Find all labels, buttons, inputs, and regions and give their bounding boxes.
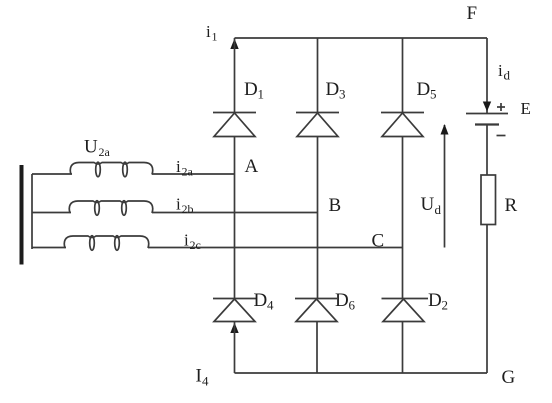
diode D1 — [214, 113, 255, 137]
diode D3 — [297, 113, 338, 137]
wire branch C upper — [402, 38, 404, 113]
wire phase a to node A — [152, 173, 235, 175]
svg-text:D: D — [417, 79, 431, 100]
svg-text:D: D — [244, 79, 258, 100]
svg-text:3: 3 — [339, 87, 346, 102]
winding secondary a — [70, 162, 152, 177]
diode D5 — [382, 113, 423, 137]
diode D2 cathode bar — [382, 298, 429, 300]
wire right rail lower — [486, 225, 488, 374]
svg-text:B: B — [329, 195, 342, 216]
winding secondary b — [69, 201, 152, 216]
battery E plus sign — [497, 103, 505, 111]
diode D6 — [296, 299, 337, 322]
wire phase c to node C — [148, 247, 403, 249]
label D6 — [335, 290, 356, 313]
svg-text:2a: 2a — [182, 165, 194, 179]
svg-text:i: i — [176, 195, 181, 214]
battery E positive plate — [466, 113, 508, 115]
wire phase a left stub — [32, 173, 72, 175]
svg-text:G: G — [502, 367, 516, 388]
wire top rail — [235, 37, 488, 39]
svg-text:I: I — [196, 366, 202, 387]
label I4 — [196, 366, 210, 389]
svg-text:D: D — [254, 290, 268, 311]
label id — [498, 61, 511, 83]
label D1 — [244, 79, 264, 102]
diode D4 cathode bar — [213, 298, 256, 300]
wire branch A lower — [234, 322, 236, 374]
arrow I4 — [230, 323, 238, 334]
label Ud — [421, 194, 442, 217]
wire right rail upper — [486, 38, 488, 113]
svg-text:1: 1 — [212, 30, 218, 44]
battery E negative plate — [475, 123, 499, 125]
diode D3 cathode bar — [296, 112, 339, 114]
diode D6 cathode bar — [295, 298, 337, 300]
label i1 — [206, 22, 218, 44]
svg-text:d: d — [504, 68, 511, 83]
wire branch A middle — [234, 137, 236, 299]
label D5 — [417, 79, 437, 102]
wire right rail middle — [486, 125, 488, 176]
label D3 — [326, 79, 346, 102]
wire branch C middle — [402, 137, 404, 299]
diode D4 — [214, 299, 255, 322]
svg-text:i: i — [176, 157, 181, 176]
wire branch B lower — [316, 322, 318, 374]
svg-text:i: i — [184, 231, 189, 250]
svg-text:E: E — [521, 99, 531, 118]
wire bottom rail — [235, 372, 488, 374]
label i2a — [176, 157, 194, 179]
wire left bus vertical — [31, 174, 33, 249]
transformer core bar — [20, 165, 24, 265]
svg-text:5: 5 — [430, 87, 437, 102]
resistor R — [481, 175, 496, 225]
diode D2 — [383, 299, 424, 322]
svg-text:6: 6 — [349, 298, 356, 313]
wire phase c left stub — [32, 247, 66, 249]
arrow i1 — [230, 39, 238, 50]
diode D5 cathode bar — [381, 112, 424, 114]
wire phase b to node B — [152, 212, 318, 214]
svg-text:2b: 2b — [182, 202, 194, 216]
label U2a — [84, 137, 111, 160]
svg-text:i: i — [498, 61, 503, 80]
label i2b — [176, 195, 194, 217]
svg-text:D: D — [335, 290, 349, 311]
wire phase b left stub — [32, 212, 71, 214]
svg-text:A: A — [245, 156, 259, 177]
svg-text:F: F — [467, 3, 478, 24]
svg-text:i: i — [206, 22, 211, 41]
arrow Ud — [441, 124, 449, 248]
svg-text:R: R — [505, 195, 518, 216]
svg-text:D: D — [326, 79, 340, 100]
svg-text:2: 2 — [442, 298, 449, 313]
label D4 — [254, 290, 275, 313]
label i2c — [184, 231, 201, 253]
svg-text:2a: 2a — [99, 145, 111, 159]
svg-text:U: U — [421, 194, 435, 215]
svg-text:U: U — [84, 137, 98, 158]
svg-text:2c: 2c — [190, 238, 201, 252]
svg-text:4: 4 — [267, 298, 274, 313]
label D2 — [428, 290, 448, 313]
wire branch C lower — [402, 322, 404, 374]
svg-text:D: D — [428, 290, 442, 311]
diode D1 cathode bar — [213, 112, 256, 114]
battery E minus sign — [497, 135, 506, 137]
wire branch B middle — [317, 137, 319, 299]
svg-text:1: 1 — [258, 87, 265, 102]
winding secondary c — [64, 236, 148, 251]
svg-text:C: C — [372, 231, 385, 252]
svg-text:4: 4 — [202, 374, 209, 389]
arrow id — [483, 102, 491, 112]
svg-text:d: d — [435, 202, 442, 217]
wire branch A upper — [234, 38, 236, 113]
wire branch B upper — [317, 38, 319, 113]
